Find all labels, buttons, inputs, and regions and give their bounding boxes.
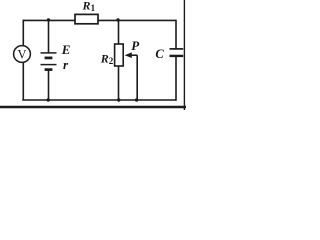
svg-text:r: r [63, 57, 69, 72]
junction dot R2 top [116, 18, 119, 21]
svg-text:P: P [131, 38, 140, 53]
junction dot battery top [47, 18, 50, 21]
svg-text:R: R [82, 0, 91, 12]
voltmeter V [14, 46, 31, 63]
wire wiper horizontal [128, 54, 137, 56]
wire bottom rail [22, 99, 176, 101]
junction dot battery bottom [47, 98, 50, 101]
svg-text:V: V [17, 47, 26, 61]
potentiometer R2 [115, 44, 124, 66]
junction dot wiper bottom [135, 98, 138, 101]
border bottom edge [0, 106, 186, 109]
wire left branch [22, 20, 24, 100]
capacitor C [170, 49, 184, 56]
wire R2 branch upper [118, 20, 120, 44]
wire R2 branch lower [118, 66, 120, 100]
svg-text:1: 1 [91, 3, 96, 13]
wire wiper vertical [136, 55, 138, 100]
junction dot R2 bottom [117, 98, 120, 101]
battery E,r plates [41, 53, 57, 70]
wire right branch lower [175, 56, 177, 101]
svg-text:C: C [155, 47, 164, 61]
wire battery branch upper [48, 20, 50, 53]
svg-text:E: E [61, 42, 71, 57]
svg-text:R: R [100, 52, 109, 66]
wire battery branch lower [48, 70, 50, 100]
resistor R1 [75, 14, 98, 23]
wiper arrow P [125, 52, 132, 58]
wire right branch upper [175, 20, 177, 49]
wire top rail [23, 19, 176, 21]
svg-text:2: 2 [109, 56, 114, 66]
border right edge [183, 0, 185, 110]
